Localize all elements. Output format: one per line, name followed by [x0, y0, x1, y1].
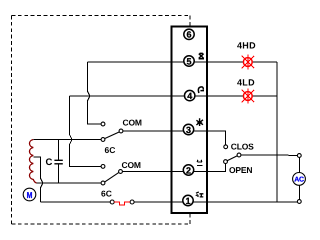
svg-text:6: 6 — [186, 30, 191, 40]
selector switch pivot — [237, 153, 241, 157]
wire color mark (terminal 4) — [198, 87, 204, 93]
svg-text:4LD: 4LD — [237, 78, 255, 88]
terminal 4 — [185, 90, 195, 100]
actuator enclosure dashed boundary — [12, 16, 190, 225]
wire: terminal 5 row (to lamp 4HD) — [88, 61, 278, 63]
svg-text:4: 4 — [187, 91, 192, 101]
terminal 1 — [183, 195, 193, 205]
terminal 3 — [183, 124, 193, 134]
limit switch S1 lower contact NC — [101, 138, 105, 142]
wire color mark (terminal 3) — [196, 118, 203, 126]
wire: branch from terminal 5 down to S1 upper contact (with hop over row 4) — [88, 62, 102, 124]
wire color mark (terminal 5) — [199, 53, 204, 58]
selector switch OPEN contact — [224, 160, 228, 164]
wire: AC source to AC bottom terminal — [298, 185, 300, 199]
svg-text:CLOS: CLOS — [231, 142, 254, 152]
capacitor C1 bottom stub — [58, 164, 60, 183]
terminal 5 — [184, 56, 194, 66]
capacitor C1 branch top stub — [58, 140, 60, 161]
limit switch S2 upper contact (from terminal 4) — [101, 165, 105, 169]
AC source bottom terminal — [297, 200, 301, 204]
svg-text:6C: 6C — [105, 145, 116, 155]
svg-text:OPEN: OPEN — [229, 165, 252, 175]
thermal protector red element — [114, 202, 130, 205]
wire color mark (terminal 2) — [197, 160, 203, 166]
limit switch S2 pivot (COM) — [119, 170, 123, 174]
svg-text:C: C — [46, 157, 53, 168]
wire: winding center tap down to terminal 1 row (hop over bottom wire) — [33, 157, 43, 202]
indicator lamp 4LD — [243, 92, 252, 101]
wire: motor winding bottom wire to S2 lower contact — [37, 182, 102, 184]
wire: lamps common bus down to terminal 1 row — [276, 62, 278, 202]
svg-text:COM: COM — [123, 118, 142, 128]
limit switch S1 upper contact (from terminal 5) — [101, 122, 105, 126]
svg-text:2: 2 — [186, 165, 191, 175]
wire: terminal 3 row (switch S1 pivot to CLOS contact) — [123, 131, 226, 145]
svg-text:AC: AC — [294, 177, 304, 184]
terminal block body — [172, 27, 208, 214]
svg-text:5: 5 — [186, 56, 191, 66]
AC source — [293, 173, 306, 186]
wire: terminal 1 row left (motor common to thermal protector) — [41, 201, 111, 203]
thermal protector left terminal — [110, 200, 114, 204]
wire: selector pivot to AC source top — [241, 154, 298, 156]
wire: terminal 2 row (switch S2 pivot to OPEN contact) — [122, 164, 225, 172]
capacitor C1 plates — [54, 159, 62, 161]
wire: motor winding top wire to S1 lower contact — [33, 139, 101, 141]
wire: branch from terminal 4 down to S2 upper contact (with hop over winding top wire) — [70, 96, 102, 166]
svg-text:COM: COM — [122, 160, 141, 170]
svg-text:1: 1 — [185, 196, 190, 206]
wire: terminal 1 row right (to AC source bottom) — [134, 201, 298, 203]
limit switch S2 lower contact NC — [101, 181, 105, 185]
AC source top terminal — [297, 154, 301, 158]
svg-text:3: 3 — [186, 125, 191, 135]
wire: AC top terminal to AC source — [298, 157, 300, 172]
wire color mark (terminal 1) — [196, 192, 204, 197]
svg-text:4HD: 4HD — [237, 41, 256, 51]
selector switch CLOS contact — [224, 145, 228, 149]
motor winding coil (inductor) — [29, 140, 36, 184]
motor M — [23, 188, 36, 201]
indicator lamp 4HD — [243, 58, 252, 67]
terminal 6 — [184, 29, 194, 39]
limit switch S1 pivot (COM) — [119, 129, 123, 133]
terminal 2 — [183, 165, 193, 175]
svg-text:M: M — [27, 190, 33, 200]
svg-text:6C: 6C — [101, 189, 112, 199]
selector switch blade — [227, 156, 237, 161]
limit switch S2 blade — [105, 172, 119, 182]
limit switch S1 blade — [105, 132, 120, 139]
wire: terminal 4 row (to lamp 4LD) — [70, 95, 277, 97]
thermal protector right terminal — [130, 200, 134, 204]
